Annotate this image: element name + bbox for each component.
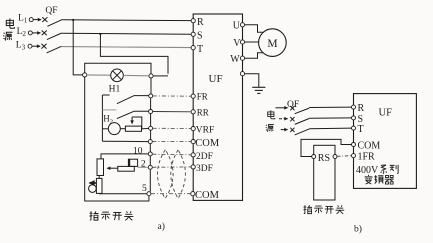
- terminal 2 junction: [148, 165, 152, 169]
- terminal COM junction: [148, 140, 152, 144]
- wire W to motor: [245, 53, 264, 58]
- label 指示开关 b): [303, 205, 312, 213]
- wire bypass loop over lamp: [85, 63, 151, 74]
- svg-text:a): a): [158, 221, 165, 232]
- label 源 b: [266, 124, 274, 131]
- terminal VRF: [191, 127, 195, 131]
- node A (left lamp junction): [83, 73, 87, 77]
- svg-text:M: M: [267, 38, 277, 50]
- svg-text:400V: 400V: [356, 165, 379, 176]
- terminal RS left: [312, 155, 316, 159]
- wire V to motor: [245, 41, 259, 43]
- svg-text:L3: L3: [16, 41, 26, 52]
- breaker pole 1 b: [276, 106, 310, 114]
- potentiometer body: [97, 159, 104, 176]
- terminal RS right: [333, 155, 337, 159]
- wire lamp row right: [123, 74, 149, 76]
- svg-text:RR: RR: [197, 107, 209, 117]
- terminal S: [191, 32, 195, 36]
- svg-text:R: R: [197, 17, 204, 28]
- svg-text:QF: QF: [45, 6, 57, 16]
- terminal T b: [352, 126, 356, 130]
- inverter box a): [193, 14, 242, 200]
- inner box bottom / COM row: [102, 140, 148, 142]
- svg-text:H1: H1: [109, 85, 121, 95]
- terminal FR junction: [149, 94, 153, 98]
- rheostat R1: [125, 126, 141, 131]
- small actuator blob: [89, 185, 97, 193]
- label 指示开关 a): [89, 211, 98, 220]
- terminal RR junction: [149, 110, 153, 114]
- cable wire 10 to 2DF: [152, 153, 191, 156]
- terminal 5 junction: [147, 192, 151, 196]
- wire U to motor: [245, 25, 264, 32]
- terminal L2: [28, 31, 32, 35]
- svg-text:T: T: [358, 124, 364, 135]
- node on L1 line: [72, 19, 74, 21]
- svg-text:S: S: [197, 31, 203, 42]
- svg-text:2DF: 2DF: [196, 152, 213, 162]
- wire to S b: [309, 117, 351, 119]
- inverter box b): [354, 94, 417, 189]
- breaker pole 2 b: [279, 117, 309, 124]
- svg-text:COM: COM: [195, 138, 220, 149]
- svg-text:R: R: [358, 103, 365, 114]
- terminal R: [191, 19, 195, 23]
- cable wire RR to terminal: [153, 111, 191, 113]
- switch unit right column: [149, 98, 151, 192]
- switch blade FR: [117, 96, 149, 104]
- wire H2 to rheostat: [120, 128, 125, 130]
- connector upper rect: [128, 159, 137, 166]
- wire pot top (10): [101, 154, 148, 159]
- terminal COM: [191, 140, 195, 144]
- node B (right lamp junction): [149, 74, 153, 78]
- inner box left edge: [102, 95, 109, 141]
- wire node B down to FR row: [150, 78, 152, 94]
- svg-text:UF: UF: [209, 73, 223, 85]
- label 电 b: [268, 110, 275, 119]
- ground: [252, 87, 265, 93]
- node on S line: [99, 33, 101, 35]
- wire S tap down: [100, 34, 168, 74]
- cable wire COM to terminal: [152, 141, 191, 143]
- wire connector to 2-junction: [138, 166, 149, 168]
- stub to RR blade pivot: [102, 109, 116, 111]
- terminal U: [240, 23, 244, 27]
- svg-text:2: 2: [141, 160, 146, 170]
- terminal RR: [191, 110, 195, 114]
- breaker QF pole 1: [33, 17, 62, 26]
- wire lamp row left: [87, 74, 111, 76]
- svg-text:10: 10: [133, 146, 143, 156]
- svg-text:VRF: VRF: [196, 126, 214, 136]
- shield oval left: [158, 150, 174, 199]
- svg-text:V: V: [233, 38, 241, 49]
- svg-text:L1: L1: [18, 14, 28, 25]
- terminal FR: [191, 94, 195, 98]
- terminal L1: [29, 18, 33, 22]
- svg-text:T: T: [197, 44, 203, 55]
- connector lower rect: [118, 166, 135, 171]
- svg-text:b): b): [354, 224, 362, 235]
- shield oval right: [171, 150, 186, 199]
- wire PE to ground: [245, 74, 259, 88]
- wire L1 tap down: [73, 20, 82, 75]
- rheostat tap arm: [132, 117, 142, 129]
- switch blade RR: [117, 111, 149, 118]
- wire RS to 1FR: [337, 155, 351, 158]
- motor M1: [259, 29, 287, 57]
- label 变频器: [365, 175, 373, 184]
- terminal W: [240, 56, 244, 60]
- wiper arrow wire (2): [107, 167, 118, 169]
- terminal VRF junction: [149, 126, 153, 130]
- wire H2 left: [102, 128, 108, 130]
- terminal 1FR b: [352, 154, 356, 158]
- breaker pole 3 b: [281, 128, 310, 135]
- label 源 (power source char 2): [3, 32, 12, 40]
- terminal 2DF: [191, 153, 195, 157]
- wire to R b: [309, 106, 351, 108]
- svg-text:COM: COM: [358, 140, 381, 151]
- terminal COM bottom: [191, 192, 195, 196]
- cable wire FR to terminal: [153, 95, 191, 97]
- svg-text:UF: UF: [379, 107, 393, 118]
- wire L3 to T: [61, 47, 191, 48]
- svg-text:3DF: 3DF: [196, 164, 213, 174]
- svg-text:FR: FR: [197, 92, 208, 102]
- wire long left drop: [85, 77, 149, 201]
- svg-text:1FR: 1FR: [358, 152, 376, 163]
- wire RS to COM: [301, 139, 351, 156]
- terminal 3DF: [191, 165, 195, 169]
- cable wire 5 to COM: [151, 193, 191, 195]
- label 电 (power source char 1): [6, 18, 14, 28]
- terminal S b: [352, 116, 356, 120]
- terminal COM b: [352, 143, 356, 147]
- svg-text:RS: RS: [318, 153, 330, 164]
- svg-text:COM: COM: [195, 190, 220, 201]
- wire rheostat to VRF: [142, 127, 149, 130]
- switch unit RS box: [314, 145, 335, 200]
- wire to T b: [309, 127, 351, 130]
- terminal T: [191, 46, 195, 50]
- terminal L3: [28, 44, 32, 48]
- terminal 10 junction: [148, 152, 152, 156]
- wire lamp right to corner: [153, 75, 168, 77]
- terminal PE: [240, 72, 244, 76]
- svg-text:U: U: [233, 21, 241, 32]
- lamp H2: [108, 123, 120, 135]
- cable wire VRF to terminal: [153, 127, 192, 129]
- svg-text:5: 5: [142, 184, 147, 194]
- lamp H1: [111, 69, 124, 82]
- svg-text:L2: L2: [17, 27, 27, 38]
- wire L2 to S: [62, 32, 191, 35]
- pot lower section: [96, 178, 102, 193]
- breaker QF pole 2: [33, 31, 62, 40]
- wire L1 to R: [62, 19, 191, 22]
- terminal R b: [352, 105, 356, 109]
- wire pot bottom (5): [99, 192, 147, 194]
- breaker QF pole 3: [32, 44, 61, 53]
- svg-text:W: W: [230, 54, 240, 65]
- terminal V: [240, 40, 244, 44]
- cable wire 2 to 3DF: [152, 166, 191, 168]
